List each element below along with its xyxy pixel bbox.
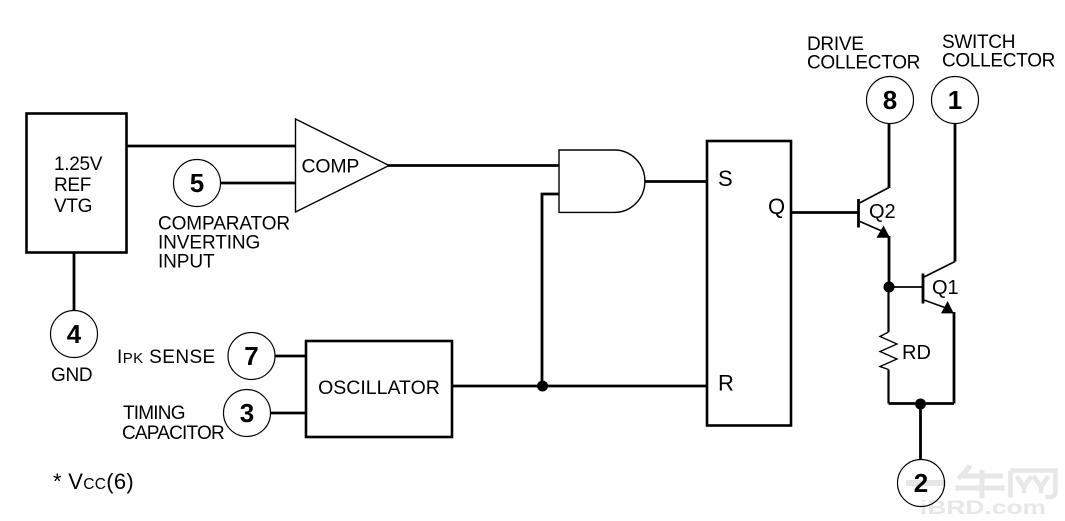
wire junction to pin 2 xyxy=(919,404,922,460)
wire junction up to AND gate lower input xyxy=(542,194,559,386)
svg-text:1.25V: 1.25V xyxy=(54,154,103,175)
AND gate xyxy=(559,150,645,212)
wire AND gate output to latch S xyxy=(645,180,707,183)
svg-text:S: S xyxy=(718,166,733,191)
pin circle 2 xyxy=(898,460,945,507)
label SWITCH COLLECTOR xyxy=(942,32,1055,72)
svg-text:OSCILLATOR: OSCILLATOR xyxy=(318,377,440,399)
wire pin 5 to comparator - input xyxy=(221,182,296,185)
svg-text:3: 3 xyxy=(240,398,254,428)
ref box 1.25V REF VTG xyxy=(27,114,127,253)
svg-text:IPK SENSE: IPK SENSE xyxy=(117,347,216,368)
pin circle 4 GND xyxy=(51,311,98,358)
svg-text:INPUT: INPUT xyxy=(158,252,215,273)
wire Q1 emitter down xyxy=(953,312,956,404)
watermark group xyxy=(906,466,1056,520)
bottom wire RD / Q1 emitter xyxy=(889,402,955,405)
latch box S R Q xyxy=(707,141,791,426)
wire ref box to pin 4 xyxy=(73,253,76,311)
svg-text:GND: GND xyxy=(51,365,92,386)
svg-text:5: 5 xyxy=(190,168,204,198)
op-amp COMP comparator triangle xyxy=(296,119,390,212)
svg-text:iBRD.com: iBRD.com xyxy=(920,498,1046,519)
svg-text:1: 1 xyxy=(948,85,962,115)
wire pin 1 to Q1 collector xyxy=(954,124,957,262)
transistor Q2 xyxy=(859,188,890,233)
oscillator box xyxy=(306,341,452,437)
watermark 牛 xyxy=(956,466,1005,499)
watermark 网 xyxy=(1011,471,1056,498)
wire pin 7 to oscillator xyxy=(275,355,306,358)
pin circle 3 xyxy=(224,390,271,437)
label TIMING CAPACITOR xyxy=(122,403,224,444)
wire latch Q output to Q2 base xyxy=(791,211,859,214)
junction dot bottom xyxy=(915,399,926,410)
svg-text:8: 8 xyxy=(883,85,897,115)
label DRIVE COLLECTOR xyxy=(807,34,920,74)
svg-text:Q: Q xyxy=(768,194,785,219)
Q1 emitter arrow xyxy=(941,301,954,313)
svg-text:CAPACITOR: CAPACITOR xyxy=(122,423,224,444)
pin circle 5 xyxy=(174,160,221,207)
svg-text:4: 4 xyxy=(67,319,82,349)
transistor Q1 xyxy=(923,262,955,309)
svg-text:TIMING: TIMING xyxy=(123,403,185,424)
wire pin 3 to oscillator xyxy=(271,412,307,415)
Q2 emitter arrow xyxy=(877,226,891,238)
svg-text:COLLECTOR: COLLECTOR xyxy=(942,51,1055,72)
svg-text:R: R xyxy=(718,371,734,396)
resistor RD xyxy=(880,293,897,404)
svg-text:REF: REF xyxy=(54,175,91,196)
svg-text:Q2: Q2 xyxy=(869,201,896,223)
wire oscillator output to latch R xyxy=(452,385,707,388)
svg-text:7: 7 xyxy=(244,341,258,371)
svg-text:COMP: COMP xyxy=(302,156,360,178)
pin circle 7 xyxy=(228,333,275,380)
pin circle 1 xyxy=(932,77,979,124)
svg-text:VTG: VTG xyxy=(54,196,92,217)
wire ref box to comparator + input xyxy=(127,145,296,148)
svg-text:* VCC(6): * VCC(6) xyxy=(53,469,134,494)
svg-text:RD: RD xyxy=(902,342,931,364)
ref box label xyxy=(54,154,103,217)
watermark bar (一) xyxy=(906,480,946,486)
wire Q2 collector to pin 8 xyxy=(888,124,891,189)
junction dot on oscillator wire xyxy=(537,381,548,392)
svg-text:COMPARATOR: COMPARATOR xyxy=(158,214,290,235)
wire Q2 emitter down to junction xyxy=(888,236,891,287)
pin circle 8 xyxy=(867,77,914,124)
svg-text:COLLECTOR: COLLECTOR xyxy=(807,53,920,74)
wire comparator output to AND gate upper input xyxy=(388,164,559,167)
svg-text:INVERTING: INVERTING xyxy=(158,233,260,254)
junction dot Q2 emitter / Q1 base xyxy=(884,282,895,293)
svg-text:Q1: Q1 xyxy=(932,277,959,299)
label COMPARATOR INVERTING INPUT xyxy=(158,214,290,273)
wire junction to Q1 base xyxy=(889,286,923,288)
